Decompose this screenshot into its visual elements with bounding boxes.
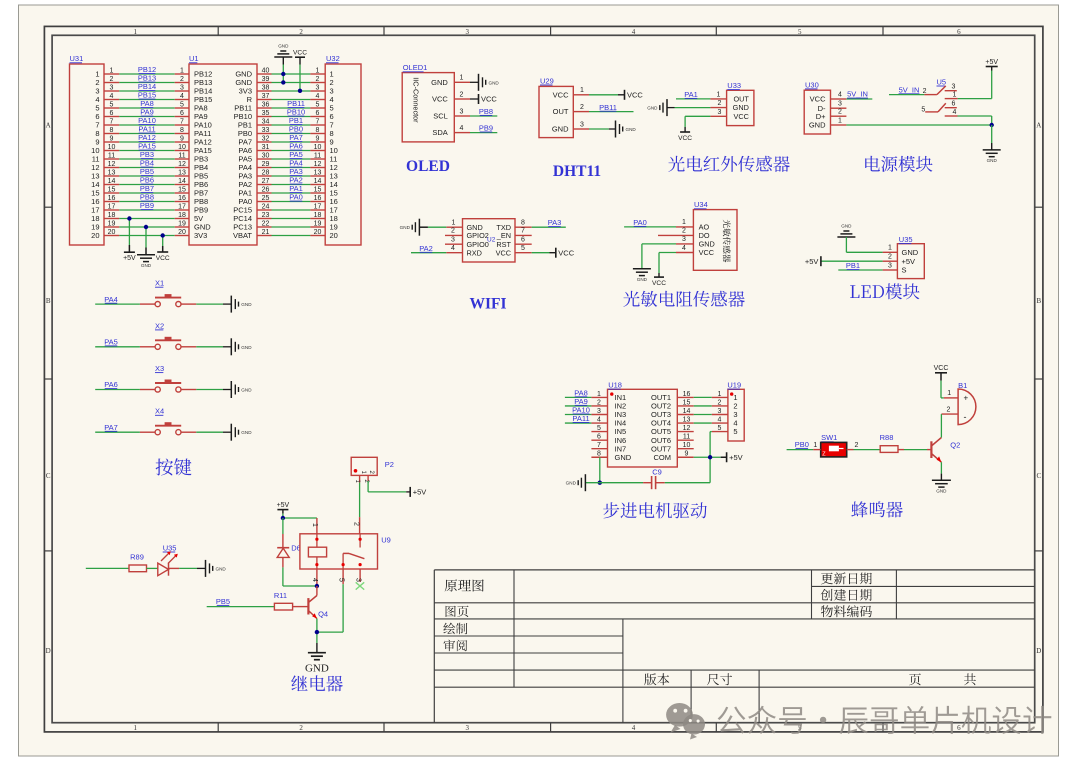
- U18 pin 4 wire PA11: [565, 414, 608, 423]
- U18 pin 7 stub: [591, 442, 607, 449]
- junction +5V relay: [281, 516, 285, 520]
- svg-text:5V_IN: 5V_IN: [847, 90, 868, 99]
- net label PA6: [289, 142, 303, 151]
- wire U31 pin 12 to U1 pin 12: [104, 161, 189, 168]
- U18 pin 3 wire PA10: [565, 406, 608, 415]
- net label PB13: [138, 74, 156, 83]
- U33 pin 2 wire to GND: [647, 99, 726, 116]
- wire PA7 to X4: [95, 423, 155, 432]
- svg-text:14: 14: [314, 178, 322, 185]
- svg-text:18: 18: [108, 212, 116, 219]
- svg-text:1: 1: [180, 67, 184, 74]
- wire U31 pin 4 to U1 pin 4: [104, 93, 189, 100]
- WIFI pin 8 wire PA3: [515, 218, 566, 227]
- svg-text:SCL: SCL: [433, 112, 448, 121]
- +5V symbol relay: [277, 502, 290, 518]
- svg-text:11: 11: [178, 152, 185, 159]
- label photoelectric IR sensor: [668, 156, 790, 172]
- svg-text:10: 10: [108, 144, 116, 151]
- zone column ticks: [218, 26, 883, 732]
- title block grid: [434, 570, 1034, 723]
- svg-text:8: 8: [110, 127, 114, 134]
- svg-text:20: 20: [314, 229, 322, 236]
- DHT11 pin 3 wire to GND: [573, 121, 636, 138]
- svg-text:17: 17: [314, 203, 322, 210]
- svg-text:VCC: VCC: [733, 112, 748, 121]
- OLED pin 1 wire to GND: [454, 74, 499, 91]
- switch U5: [889, 77, 958, 116]
- svg-text:2: 2: [299, 724, 303, 732]
- label photoresistor sensor: [623, 291, 745, 307]
- svg-text:IIC-Connector: IIC-Connector: [412, 77, 421, 123]
- wire U31 pin 8 to U1 pin 8: [104, 127, 189, 134]
- svg-text:COM: COM: [654, 453, 672, 462]
- svg-text:4: 4: [311, 578, 318, 582]
- svg-text:9: 9: [180, 135, 184, 142]
- svg-text:VCC: VCC: [558, 248, 574, 257]
- sensor U29 DHT11: [539, 76, 573, 137]
- svg-text:11: 11: [683, 434, 690, 441]
- wire U1 pin 21 to U32 pin 20: [257, 229, 325, 236]
- net label PB0: [289, 125, 303, 134]
- svg-text:GND: GND: [841, 224, 852, 229]
- net label PB7: [140, 184, 154, 193]
- svg-text:2: 2: [580, 104, 584, 111]
- wire U31 pin 5 to U1 pin 5: [104, 101, 189, 108]
- svg-text:39: 39: [262, 76, 270, 83]
- svg-text:VCC: VCC: [481, 95, 497, 104]
- svg-text:PB9: PB9: [479, 124, 493, 133]
- svg-text:3: 3: [466, 28, 470, 36]
- transistor Q2: [931, 438, 960, 463]
- svg-text:OLED: OLED: [406, 158, 450, 175]
- svg-text:18: 18: [178, 212, 186, 219]
- junction U1 pin39 GND: [281, 80, 285, 84]
- watermark wechat logo: [666, 703, 705, 740]
- svg-text:2: 2: [855, 442, 859, 449]
- svg-text:6: 6: [597, 434, 601, 441]
- svg-text:+5V: +5V: [413, 488, 427, 497]
- svg-text:4: 4: [316, 93, 320, 100]
- svg-text:1: 1: [311, 523, 318, 527]
- svg-text:3: 3: [110, 84, 114, 91]
- WIFI pin 7 stub: [515, 228, 532, 236]
- svg-text:7: 7: [597, 442, 601, 449]
- wire U31 pin 17 to U1 pin 17: [104, 203, 189, 210]
- label stepper motor driver: [603, 502, 707, 518]
- svg-text:8: 8: [597, 451, 601, 458]
- svg-text:25: 25: [262, 195, 270, 202]
- svg-text:8: 8: [180, 127, 184, 134]
- svg-text:5V_IN: 5V_IN: [899, 85, 920, 94]
- connector U19: [727, 381, 744, 442]
- P2 pin 1 wire to U9 pin 2: [352, 475, 360, 533]
- wire PA4 to X1: [95, 295, 155, 304]
- wire U31 pin 9 to U1 pin 9: [104, 135, 189, 142]
- net label PB9: [140, 201, 154, 210]
- svg-text:GND: GND: [552, 125, 569, 134]
- svg-text:GND: GND: [278, 44, 289, 49]
- svg-text:1: 1: [717, 91, 721, 98]
- svg-text:14: 14: [108, 178, 116, 185]
- svg-text:1: 1: [813, 442, 817, 449]
- svg-text:VCC: VCC: [627, 91, 643, 100]
- svg-text:1: 1: [110, 67, 114, 74]
- svg-text:19: 19: [108, 220, 116, 227]
- svg-text:3: 3: [838, 101, 842, 108]
- svg-text:RXD: RXD: [467, 248, 482, 257]
- junction relay pin4: [315, 584, 319, 588]
- svg-text:DHT11: DHT11: [553, 163, 601, 180]
- svg-text:30: 30: [262, 152, 270, 159]
- wire U1 pin 33 to U32 pin 8: [257, 127, 325, 134]
- svg-text:X3: X3: [155, 364, 164, 373]
- svg-text:19: 19: [178, 220, 186, 227]
- svg-text:13: 13: [178, 169, 186, 176]
- wire U1 pin 22 to U32 pin 19: [257, 220, 325, 227]
- svg-text:5: 5: [733, 427, 737, 436]
- net label PA0: [289, 193, 303, 202]
- svg-text:1: 1: [460, 75, 464, 82]
- svg-text:PA2: PA2: [419, 244, 433, 253]
- relay U9: [300, 534, 391, 569]
- svg-text:14: 14: [683, 408, 691, 415]
- wire U1 pin 39 to U32 pin 2: [257, 76, 325, 83]
- connector P2: [351, 457, 394, 475]
- svg-text:13: 13: [108, 169, 116, 176]
- wire U31 pin 19 to U1 pin 19: [104, 220, 189, 227]
- wire U31 pin 7 to U1 pin 7: [104, 118, 189, 125]
- transistor Q4: [293, 596, 329, 619]
- U34 pin 3 wire to GND: [633, 236, 694, 282]
- svg-text:U19: U19: [727, 381, 741, 390]
- wire Q4 emitter to GND: [316, 619, 318, 653]
- LED module pin 1 wire to GND: [846, 245, 897, 253]
- svg-text:8: 8: [316, 127, 320, 134]
- svg-text:10: 10: [683, 442, 691, 449]
- svg-text:21: 21: [262, 229, 270, 236]
- svg-text:10: 10: [178, 144, 186, 151]
- ground symbol above U1: [274, 44, 292, 83]
- resistor R11: [207, 591, 293, 610]
- svg-text:U32: U32: [326, 54, 340, 63]
- svg-text:14: 14: [178, 178, 186, 185]
- svg-text:3: 3: [316, 84, 320, 91]
- svg-text:VCC: VCC: [293, 50, 307, 57]
- svg-text:GND: GND: [400, 225, 411, 230]
- svg-text:PA7: PA7: [104, 423, 118, 432]
- svg-text:15: 15: [314, 186, 322, 193]
- svg-text:6: 6: [110, 110, 114, 117]
- wire X2 to GND: [181, 338, 252, 355]
- svg-text:7: 7: [521, 228, 525, 235]
- title block texts: [443, 572, 976, 685]
- svg-text:15: 15: [178, 186, 186, 193]
- wire U31 pin 13 to U1 pin 13: [104, 169, 189, 176]
- svg-text:2: 2: [451, 228, 455, 235]
- pushbutton X3: [155, 364, 181, 392]
- wire U31 pin 14 to U1 pin 14: [104, 178, 189, 185]
- svg-text:D: D: [46, 647, 51, 655]
- wire rail to ground: [991, 125, 993, 150]
- svg-text:5: 5: [798, 28, 802, 36]
- wire U1 pin 35 to U32 pin 6: [257, 110, 325, 117]
- svg-text:GND: GND: [566, 481, 577, 486]
- svg-text:GND: GND: [637, 277, 648, 282]
- svg-text:5: 5: [180, 101, 184, 108]
- svg-text:GND: GND: [431, 78, 448, 87]
- svg-text:U1: U1: [189, 54, 199, 63]
- svg-text:4: 4: [451, 245, 455, 252]
- svg-text:PA0: PA0: [289, 193, 303, 202]
- wire U1 pin 36 to U32 pin 5: [257, 101, 325, 108]
- VCC to B1 pin1: [934, 365, 949, 398]
- DHT11 pin 2 wire PB11: [573, 103, 633, 112]
- buzzer B1: [958, 381, 976, 425]
- svg-text:24: 24: [262, 203, 270, 210]
- svg-text:16: 16: [683, 391, 691, 398]
- svg-text:3: 3: [952, 83, 956, 90]
- svg-text:VCC: VCC: [156, 255, 170, 262]
- svg-text:U31: U31: [70, 54, 84, 63]
- svg-text:PA4: PA4: [104, 295, 118, 304]
- svg-text:16: 16: [178, 195, 186, 202]
- svg-text:15: 15: [108, 186, 116, 193]
- svg-text:C: C: [46, 472, 51, 480]
- OLED pin 2 wire to VCC: [454, 91, 497, 104]
- wire U31 pin 11 to U1 pin 11: [104, 152, 189, 159]
- wire U1 pin 28 to U32 pin 13: [257, 169, 325, 176]
- svg-text:2: 2: [718, 100, 722, 107]
- svg-text:+5V: +5V: [729, 453, 743, 462]
- wire U1 pin 32 to U32 pin 9: [257, 135, 325, 142]
- U33 pin 3 wire to VCC: [678, 109, 726, 142]
- VCC symbol above U1: [293, 50, 307, 91]
- connector U31: [70, 54, 105, 245]
- svg-text:VCC: VCC: [678, 135, 692, 142]
- svg-text:7: 7: [316, 118, 320, 125]
- U18 pin 2 wire PA9: [565, 397, 608, 406]
- GND power below U31 row19: [137, 227, 155, 268]
- svg-text:1: 1: [133, 28, 137, 36]
- wire Q4 collector: [316, 586, 318, 596]
- svg-text:GND: GND: [241, 345, 252, 350]
- svg-text:U34: U34: [694, 200, 708, 209]
- svg-text:PA3: PA3: [548, 218, 562, 227]
- svg-text:36: 36: [262, 101, 270, 108]
- svg-text:12: 12: [314, 161, 322, 168]
- svg-text:34: 34: [262, 118, 270, 125]
- svg-text:4: 4: [460, 125, 464, 132]
- wire U31 pin 2 to U1 pin 2: [104, 76, 189, 83]
- zone column labels: [133, 28, 961, 732]
- svg-text:-: -: [964, 412, 967, 422]
- U34 pin 1 wire PA0: [624, 218, 693, 227]
- wire U18 OUT1 to U19 pin 1: [677, 391, 728, 398]
- wire X4 to GND: [181, 424, 252, 441]
- svg-text:16: 16: [314, 195, 322, 202]
- svg-text:S: S: [902, 266, 907, 275]
- pushbutton X1: [155, 279, 181, 307]
- wire U1 pin 27 to U32 pin 14: [257, 178, 325, 185]
- svg-text:6: 6: [957, 724, 961, 732]
- connector U32: [325, 54, 361, 245]
- svg-text:4: 4: [110, 93, 114, 100]
- svg-text:9: 9: [110, 135, 114, 142]
- svg-text:6: 6: [180, 110, 184, 117]
- junction row19 GND: [144, 225, 148, 229]
- svg-text:U35: U35: [899, 235, 913, 244]
- svg-text:1: 1: [580, 87, 584, 94]
- U30 pin 3 stub: [831, 101, 847, 109]
- svg-text:PB9: PB9: [140, 201, 154, 210]
- net label PA1: [289, 184, 303, 193]
- svg-text:18: 18: [314, 212, 322, 219]
- resistor R88: [880, 433, 898, 452]
- svg-text:4: 4: [718, 416, 722, 423]
- svg-text:GND: GND: [305, 663, 329, 675]
- relay pin 5 wire: [317, 569, 344, 632]
- MCU U1: [189, 54, 257, 245]
- svg-text:PA5: PA5: [104, 338, 118, 347]
- svg-text:17: 17: [178, 203, 186, 210]
- wire switch pin1 to +5V: [958, 67, 992, 99]
- wire U31 pin 1 to U1 pin 1: [104, 67, 189, 74]
- svg-text:5: 5: [316, 101, 320, 108]
- svg-text:U29: U29: [540, 76, 554, 85]
- svg-text:GND: GND: [902, 248, 919, 257]
- svg-text:2: 2: [352, 522, 359, 526]
- svg-text:5: 5: [338, 578, 345, 582]
- svg-text:PA1: PA1: [684, 90, 698, 99]
- P2 pin 2 wire to +5V: [363, 475, 426, 497]
- U30 pin 2 stub: [831, 109, 847, 117]
- svg-text:13: 13: [683, 416, 691, 423]
- svg-text:4: 4: [632, 724, 636, 732]
- svg-text:C: C: [1036, 472, 1041, 480]
- svg-text:20: 20: [108, 229, 116, 236]
- svg-text:6: 6: [957, 28, 961, 36]
- junction COM +5V: [708, 455, 712, 459]
- svg-text:31: 31: [262, 144, 270, 151]
- svg-text:38: 38: [262, 84, 270, 91]
- net label PB1: [289, 116, 303, 125]
- svg-text:GND: GND: [489, 80, 500, 85]
- wire U31 pin 20 to U1 pin 20: [104, 229, 189, 236]
- svg-text:VCC: VCC: [934, 365, 949, 372]
- svg-text:19: 19: [314, 220, 322, 227]
- svg-text:SW1: SW1: [821, 433, 837, 442]
- svg-text:GND: GND: [141, 263, 152, 268]
- svg-text:5: 5: [597, 425, 601, 432]
- zone row labels: [46, 122, 1042, 656]
- svg-text:6: 6: [952, 100, 956, 107]
- svg-text:GND: GND: [987, 158, 998, 163]
- sensor U33: [727, 81, 754, 126]
- svg-text:10: 10: [314, 144, 322, 151]
- WIFI pin 2 stub: [445, 228, 463, 236]
- resistor R89: [86, 553, 147, 572]
- svg-text:1: 1: [888, 245, 892, 252]
- svg-text:VCC: VCC: [432, 95, 448, 104]
- label power module: [865, 156, 932, 172]
- U18 pin 8 GND wire: [591, 451, 607, 483]
- svg-text:A: A: [1036, 122, 1041, 130]
- svg-text:2: 2: [838, 109, 842, 116]
- svg-text:C9: C9: [652, 468, 662, 477]
- svg-text:B: B: [1036, 297, 1041, 305]
- svg-text:GND: GND: [241, 302, 252, 307]
- junction U1 pin40 GND: [281, 72, 285, 76]
- svg-text:1: 1: [452, 220, 456, 227]
- U34 pin 4 wire to VCC: [652, 245, 693, 287]
- wire U1 pin 25 to U32 pin 16: [257, 195, 325, 202]
- svg-text:VCC: VCC: [699, 248, 714, 257]
- svg-text:U30: U30: [805, 80, 819, 89]
- wire U1 pin 29 to U32 pin 12: [257, 161, 325, 168]
- net label PA8: [140, 99, 154, 108]
- svg-text:PB5: PB5: [216, 597, 230, 606]
- svg-text:15: 15: [683, 399, 691, 406]
- U19 pin 5 wire to +5V net: [710, 425, 728, 483]
- net label PB12: [138, 65, 156, 74]
- svg-text:GND: GND: [733, 103, 749, 112]
- label LED module: [850, 283, 919, 299]
- svg-text:P2: P2: [385, 460, 394, 469]
- WIFI pin 6 stub: [515, 237, 532, 245]
- svg-text:4: 4: [597, 416, 601, 423]
- svg-text:PA6: PA6: [104, 380, 118, 389]
- junction U1 pin38 VCC: [298, 89, 302, 93]
- svg-text:PA0: PA0: [633, 218, 647, 227]
- U18 pin 9 COM wire to +5V: [677, 451, 742, 463]
- svg-text:VCC: VCC: [652, 280, 666, 287]
- net label PA2: [289, 176, 303, 185]
- svg-text:2: 2: [316, 76, 320, 83]
- svg-text:11: 11: [314, 152, 321, 159]
- svg-text:3: 3: [682, 236, 686, 243]
- svg-text:5: 5: [718, 425, 722, 432]
- svg-text:PB0: PB0: [795, 440, 809, 449]
- svg-text:33: 33: [262, 127, 270, 134]
- svg-text:_EN: _EN: [496, 231, 511, 240]
- WIFI pin 1 wire to GND: [400, 219, 463, 236]
- svg-text:2: 2: [888, 254, 892, 261]
- svg-text:16: 16: [108, 195, 116, 202]
- svg-text:2: 2: [460, 91, 464, 98]
- svg-text:1: 1: [947, 390, 951, 397]
- svg-text:12: 12: [108, 161, 116, 168]
- svg-text:SDA: SDA: [432, 128, 447, 137]
- net label PB11: [287, 99, 305, 108]
- svg-text:37: 37: [262, 93, 270, 100]
- svg-text:12: 12: [683, 425, 691, 432]
- WIFI pin 4 wire PA2: [411, 244, 463, 253]
- wire U1 pin 26 to U32 pin 15: [257, 186, 325, 193]
- svg-text:28: 28: [262, 169, 270, 176]
- wire PA6 to X3: [95, 380, 155, 389]
- svg-text:1: 1: [682, 219, 686, 226]
- svg-text:2: 2: [947, 406, 951, 413]
- wire U18 OUT3 to U19 pin 3: [677, 408, 728, 415]
- net label PB15: [138, 91, 156, 100]
- svg-text:22: 22: [262, 220, 270, 227]
- switch SW1: [821, 433, 847, 457]
- svg-text:X1: X1: [155, 279, 164, 288]
- wire U31 pin 10 to U1 pin 10: [104, 144, 189, 151]
- U18 pin 5 stub: [591, 425, 607, 432]
- svg-text:R89: R89: [130, 553, 144, 562]
